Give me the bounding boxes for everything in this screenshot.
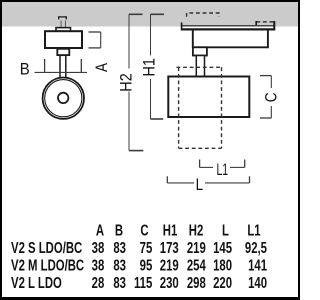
adapter pin <box>59 17 67 28</box>
neck side <box>193 47 207 55</box>
svg-text:219: 219 <box>160 256 179 274</box>
svg-text:254: 254 <box>187 256 206 274</box>
svg-text:173: 173 <box>160 238 179 256</box>
svg-text:230: 230 <box>160 273 179 291</box>
svg-text:298: 298 <box>187 273 206 291</box>
dashed rotated position rect <box>177 67 222 148</box>
svg-text:83: 83 <box>113 256 126 274</box>
svg-text:115: 115 <box>134 273 153 291</box>
dimension lines H1 and H2 with end ticks <box>129 14 164 150</box>
svg-text:V2 L LDO: V2 L LDO <box>11 273 62 291</box>
svg-text:141: 141 <box>248 256 267 274</box>
svg-text:219: 219 <box>187 238 206 256</box>
svg-text:28: 28 <box>92 273 105 291</box>
svg-text:38: 38 <box>92 256 105 274</box>
svg-text:C: C <box>262 92 281 102</box>
svg-text:H2: H2 <box>189 221 204 239</box>
dashed pin outline in track <box>187 13 219 17</box>
svg-text:L1: L1 <box>247 221 260 239</box>
stem side <box>196 56 204 77</box>
dimension bracket C <box>260 76 271 118</box>
svg-text:B: B <box>20 61 30 79</box>
svg-text:83: 83 <box>113 273 126 291</box>
svg-text:95: 95 <box>140 256 153 274</box>
svg-text:H1: H1 <box>163 221 178 239</box>
svg-text:83: 83 <box>113 238 126 256</box>
dimension bracket A <box>89 32 101 48</box>
svg-text:92,5: 92,5 <box>245 238 267 256</box>
adapter tab <box>56 28 71 32</box>
ceiling band <box>0 2 300 27</box>
svg-text:H1: H1 <box>140 58 158 76</box>
adapter box side <box>193 31 268 48</box>
svg-text:180: 180 <box>213 256 232 274</box>
adapter box <box>45 31 82 48</box>
pin above bar right <box>256 21 273 25</box>
svg-text:H2: H2 <box>117 73 135 91</box>
svg-text:140: 140 <box>248 273 267 291</box>
svg-text:38: 38 <box>92 238 105 256</box>
svg-text:A: A <box>96 221 104 239</box>
dimension line L1 with end ticks <box>200 160 245 168</box>
svg-text:L: L <box>196 176 204 195</box>
neck <box>57 49 69 55</box>
svg-text:A: A <box>92 62 111 72</box>
dimension line B with end ticks <box>35 59 88 72</box>
svg-text:L1: L1 <box>216 159 228 178</box>
track bar <box>182 21 275 31</box>
body <box>168 77 249 118</box>
lamp head circle <box>43 78 84 119</box>
svg-text:V2 M LDO/BC: V2 M LDO/BC <box>11 256 84 274</box>
dimension line L with end ticks <box>167 176 249 183</box>
svg-text:V2 S LDO/BC: V2 S LDO/BC <box>11 238 82 256</box>
svg-text:145: 145 <box>213 238 232 256</box>
svg-text:B: B <box>115 221 123 239</box>
stem <box>60 55 66 78</box>
svg-text:75: 75 <box>140 238 153 256</box>
svg-text:220: 220 <box>213 273 232 291</box>
svg-text:C: C <box>140 221 148 239</box>
svg-text:L: L <box>222 221 229 239</box>
